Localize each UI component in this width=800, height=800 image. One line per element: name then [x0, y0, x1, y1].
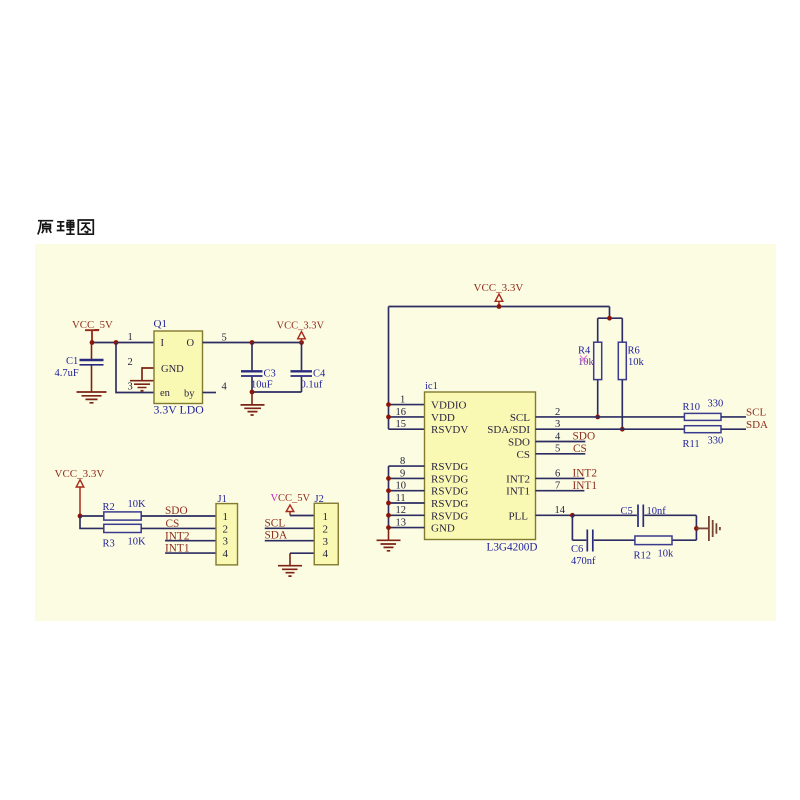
J1 pin numbers	[223, 511, 229, 560]
svg-text:L3G4200D: L3G4200D	[487, 542, 538, 554]
svg-text:J1: J1	[218, 494, 227, 505]
node R6 bottom	[620, 427, 625, 432]
svg-text:RSVDG: RSVDG	[431, 498, 468, 510]
wire pin 14 PLL	[536, 514, 573, 516]
node pin10	[386, 488, 391, 493]
wire pin 11	[389, 502, 425, 504]
Q1 pin names	[160, 338, 195, 400]
node pin13	[386, 525, 391, 530]
svg-text:330: 330	[708, 399, 724, 410]
node pin1	[386, 402, 391, 407]
svg-text:RSVDG: RSVDG	[431, 473, 468, 485]
node junction VCC_5V/C1	[90, 340, 95, 345]
svg-text:10nf: 10nf	[647, 506, 667, 517]
svg-text:10K: 10K	[128, 499, 147, 510]
capacitor C5	[572, 505, 696, 528]
svg-text:SDA: SDA	[265, 530, 288, 542]
svg-text:INT1: INT1	[165, 543, 189, 555]
svg-text:15: 15	[396, 419, 407, 430]
wire pin 4 stub	[536, 441, 586, 443]
svg-text:SDO: SDO	[508, 437, 530, 449]
svg-text:10k: 10k	[628, 357, 645, 368]
wire pin 9	[389, 477, 425, 479]
wire J2 pin3	[265, 540, 315, 542]
node junction en branch	[114, 340, 119, 345]
node junction C4/VCC3.3	[299, 340, 304, 345]
wire R10 to SCL label	[721, 416, 746, 418]
svg-text:SCL: SCL	[746, 407, 766, 419]
wire J2 pin1	[290, 515, 314, 517]
svg-text:I: I	[161, 338, 165, 349]
svg-text:ic1: ic1	[425, 381, 438, 392]
svg-text:VCC_5V: VCC_5V	[72, 319, 113, 331]
wire left supply bus	[388, 307, 390, 430]
svg-text:VCC_3.3V: VCC_3.3V	[55, 468, 105, 480]
node pin14	[570, 513, 575, 518]
svg-text:R11: R11	[683, 439, 700, 450]
svg-text:SDA/SDI: SDA/SDI	[487, 424, 530, 436]
svg-text:4: 4	[323, 548, 329, 560]
svg-text:RSVDG: RSVDG	[431, 461, 468, 473]
svg-text:3: 3	[128, 382, 133, 393]
svg-text:330: 330	[708, 436, 724, 447]
svg-text:C3: C3	[264, 369, 276, 380]
resistor R11	[683, 426, 724, 451]
svg-text:CS: CS	[166, 518, 180, 530]
wire pin1 Q1 input	[92, 342, 154, 344]
capacitor C4	[291, 343, 327, 393]
right pin numbers	[555, 407, 566, 516]
node R4 bottom	[595, 415, 600, 420]
svg-text:INT2: INT2	[573, 468, 598, 480]
ground below IC	[377, 528, 401, 551]
svg-text:J2: J2	[315, 494, 324, 505]
svg-text:2: 2	[128, 357, 133, 368]
power symbol VCC_5V	[72, 319, 113, 343]
wire pin 13	[389, 527, 425, 529]
node R2/R3 branch	[78, 514, 83, 519]
ground at Q1 pin2	[130, 381, 154, 391]
svg-text:SDO: SDO	[165, 505, 188, 517]
ground below J2	[278, 553, 302, 576]
left pin numbers	[396, 394, 407, 528]
svg-text:470nf: 470nf	[571, 556, 596, 567]
resistor R4	[578, 318, 602, 417]
wire right loop vertical	[695, 515, 697, 540]
wire J1 pin4	[165, 552, 216, 554]
svg-text:3: 3	[323, 536, 329, 548]
node pin16	[386, 415, 391, 420]
svg-text:2: 2	[323, 524, 329, 536]
node pin12	[386, 513, 391, 518]
capacitor C6	[571, 530, 596, 567]
svg-text:VDDIO: VDDIO	[431, 400, 466, 412]
node earth tap	[694, 526, 699, 531]
J2 pin numbers	[323, 511, 329, 560]
svg-text:R6: R6	[628, 346, 640, 357]
svg-text:RSVDG: RSVDG	[431, 486, 468, 498]
svg-text:1: 1	[400, 394, 405, 405]
wire pin 7 stub	[536, 490, 585, 492]
wire down to R3 row	[80, 516, 104, 528]
wire J2 pin4	[290, 552, 314, 554]
resistor R10	[683, 399, 724, 421]
svg-text:en: en	[160, 388, 171, 399]
svg-text:C5: C5	[621, 506, 633, 517]
resistor R3	[103, 524, 147, 549]
svg-text:SDO: SDO	[573, 431, 596, 443]
svg-text:VCC_3.3V: VCC_3.3V	[277, 321, 325, 332]
wire C3-C4 bottom	[252, 391, 302, 393]
svg-text:1: 1	[128, 332, 133, 343]
svg-text:CS: CS	[573, 443, 587, 455]
svg-text:PLL: PLL	[508, 510, 528, 522]
wire pin 3 SDA	[536, 428, 685, 430]
svg-text:RSVDV: RSVDV	[431, 424, 468, 436]
ground below C3	[241, 392, 265, 415]
node junction C3 bottom	[250, 390, 255, 395]
wire pin 1	[389, 404, 425, 406]
wire pin 12	[389, 514, 425, 516]
svg-text:10k: 10k	[658, 549, 675, 560]
svg-text:GND: GND	[161, 364, 184, 375]
resistor R2	[103, 499, 147, 520]
svg-text:10uF: 10uF	[251, 380, 273, 391]
power symbol VCC_5V (J2)	[271, 493, 311, 516]
svg-text:4.7uF: 4.7uF	[55, 368, 79, 379]
power symbol VCC_3.3V (top)	[474, 282, 524, 307]
IC ic1 body	[425, 392, 536, 540]
connector J1 body	[216, 504, 238, 565]
node pin11	[386, 501, 391, 506]
svg-text:by: by	[184, 389, 195, 400]
svg-text:10K: 10K	[128, 537, 147, 548]
svg-text:VDD: VDD	[431, 412, 455, 424]
wire en branch	[116, 343, 154, 393]
regulator Q1 body	[154, 331, 203, 404]
title 原理图 (drawn strokes)	[38, 220, 94, 235]
wire Q1 by pin4 stub	[203, 392, 217, 394]
svg-text:INT2: INT2	[165, 530, 190, 542]
ground below C1	[77, 392, 107, 403]
wire J2 pin2	[265, 527, 315, 529]
node junction VCC rail	[497, 304, 502, 309]
svg-text:CS: CS	[517, 449, 530, 461]
node R4R6 tee	[607, 316, 612, 321]
svg-text:Q1: Q1	[154, 318, 167, 330]
power symbol VCC_3.3V (bottom left)	[55, 468, 105, 516]
wire pin 10	[389, 490, 425, 492]
wire Q1 output pin5	[203, 342, 302, 344]
wire pin 5 stub	[536, 453, 586, 455]
svg-text:C6: C6	[571, 544, 583, 555]
svg-text:16: 16	[396, 407, 407, 418]
wire R4 R6 tee	[598, 307, 623, 319]
connector J2 body	[314, 503, 338, 565]
wire pin 16	[389, 416, 425, 418]
svg-text:O: O	[187, 338, 195, 349]
svg-text:2: 2	[223, 523, 229, 535]
svg-text:GND: GND	[431, 523, 455, 535]
resistor R6	[618, 318, 644, 429]
wire Q1 GND pin	[142, 368, 154, 380]
svg-text:INT1: INT1	[506, 486, 530, 498]
svg-text:1: 1	[223, 511, 229, 523]
svg-text:INT1: INT1	[573, 480, 597, 492]
wire pin 6 stub	[536, 477, 585, 479]
wire R2 to J1 pin1	[141, 515, 216, 517]
svg-text:R3: R3	[103, 539, 115, 550]
svg-text:R4: R4	[578, 346, 591, 357]
svg-text:4: 4	[223, 548, 229, 560]
svg-text:R2: R2	[103, 502, 115, 513]
node junction C3	[250, 340, 255, 345]
wire J1 pin3	[165, 540, 216, 542]
wire VCC rail top	[389, 306, 610, 308]
wire R3 to J1 pin2	[141, 527, 216, 529]
IC right pin names	[487, 412, 530, 522]
svg-text:R12: R12	[634, 551, 652, 562]
wire pin 8	[389, 465, 425, 467]
capacitor C1	[55, 343, 104, 392]
svg-text:0.1uf: 0.1uf	[301, 380, 323, 391]
wire R11 to SDA label	[721, 428, 746, 430]
svg-text:VCC_3.3V: VCC_3.3V	[474, 282, 524, 294]
svg-text:RSVDG: RSVDG	[431, 510, 468, 522]
svg-text:R10: R10	[683, 402, 701, 413]
resistor R12	[634, 536, 675, 562]
svg-text:SDA: SDA	[746, 419, 768, 431]
wire R2 row	[80, 515, 104, 517]
wire RSVDG bus	[388, 466, 390, 527]
wire bottom loop	[572, 515, 696, 540]
svg-text:CC_5V: CC_5V	[278, 493, 311, 504]
svg-text:4: 4	[222, 382, 228, 393]
IC left pin names	[431, 400, 468, 535]
power symbol VCC_3.3V	[277, 321, 325, 343]
wire pin 15	[389, 428, 425, 430]
schematic panel background	[35, 244, 776, 621]
svg-text:3.3V LDO: 3.3V LDO	[154, 402, 205, 416]
svg-text:SCL: SCL	[510, 412, 530, 424]
capacitor C3	[241, 343, 276, 393]
svg-text:1: 1	[323, 511, 329, 523]
svg-text:3: 3	[223, 536, 229, 548]
svg-text:C4: C4	[313, 369, 326, 380]
chassis earth symbol	[696, 516, 720, 541]
svg-text:5: 5	[222, 333, 227, 344]
svg-text:INT2: INT2	[506, 473, 530, 485]
wire pin 2 SCL	[536, 416, 685, 418]
node pin9	[386, 476, 391, 481]
svg-text:C1: C1	[66, 356, 78, 367]
